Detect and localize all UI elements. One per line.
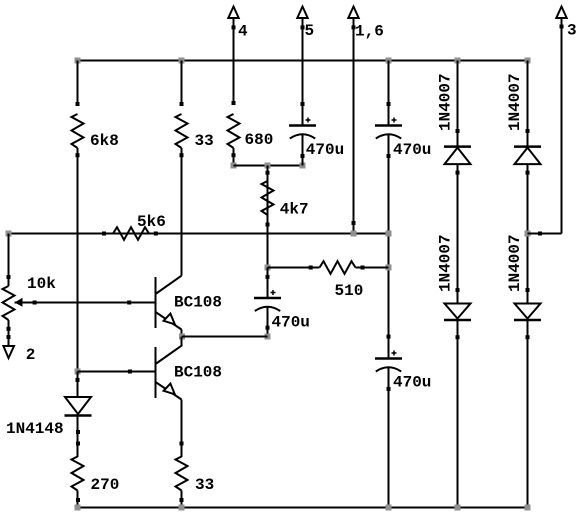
svg-text:470u: 470u [272,314,310,332]
wire 5k6 rail [9,233,390,235]
wire 6k8 bottom to base node [77,148,79,372]
junction top rail / C3 [386,58,392,64]
svg-text:4k7: 4k7 [280,201,309,219]
wire pin3 to D3/D4 node [528,233,562,235]
junction top rail / D1 [455,58,461,64]
wire C3 to C4 [388,135,390,359]
junction 680 bottom [231,163,237,169]
wire D4 to bottom rail [527,320,529,508]
wire top supply rail [77,60,529,62]
capacitor C1 470u [289,118,316,139]
svg-text:33: 33 [195,132,214,150]
wire 680 bottom [233,148,235,166]
svg-text:BC108: BC108 [174,294,222,312]
wire node to Q2 collector [181,337,183,347]
wire rail to 510 node [267,234,269,268]
wire C2 bottom [267,307,269,337]
wire to D1 [457,61,459,147]
wire Q1 emitter to C2 [182,336,268,338]
wire 33 to bottom rail [181,491,183,508]
wire to D3 [527,61,529,147]
transistor Q2 BC108 [156,346,182,400]
wire 1N4148 to 270 [77,416,79,458]
capacitor C2 470u [254,290,281,311]
svg-text:5k6: 5k6 [137,213,166,231]
wire to 1N4148 [77,372,79,398]
terminal arrow pin 3 [556,7,566,19]
wire Q2 base [78,371,156,373]
svg-text:33: 33 [195,476,214,494]
junction bottom 33 [179,505,185,511]
diode D1 1N4007 [444,147,471,165]
junction pin1,6 / rail [351,231,357,237]
wire 270 to bottom rail [77,491,79,508]
terminal arrow pin 1,6 [348,7,358,19]
junction 4k7 top [265,163,271,169]
svg-text:270: 270 [91,476,120,494]
wire Q1 emitter to node [181,330,183,337]
wire pin1,6 to rail [353,19,355,234]
capacitor C4 470u [375,351,402,372]
wire pin3 down [561,19,563,234]
wire 33 to Q1 collector [181,148,183,276]
diode 1N4148 [65,397,92,416]
wire bottom rail [78,507,528,509]
terminal arrow pin 4 [228,7,238,19]
junction top rail / 33 [179,58,185,64]
junction top rail end / D3 [525,58,531,64]
wire D1 to D2 [457,164,459,304]
node 510 left [265,265,271,271]
diode D4 1N4007 [514,304,541,321]
wire 510 right [356,267,389,269]
svg-text:10k: 10k [27,275,56,293]
terminal arrow pin 2 (down) [3,346,14,358]
wire 6k8 top [77,61,79,105]
junction top-left corner [75,58,81,64]
potentiometer 10k [3,286,15,320]
svg-text:3: 3 [567,22,577,40]
svg-text:470u: 470u [393,374,431,392]
svg-text:470u: 470u [306,141,344,159]
junction bottom D2 [455,505,461,511]
wire pot to pin 2 [8,320,10,346]
svg-text:1,6: 1,6 [355,23,384,41]
junction bottom D4 [525,505,531,511]
junction bottom-left [75,505,81,511]
svg-text:1N4007: 1N4007 [506,234,524,292]
junction C2 bottom [265,334,271,340]
wire 680 to cap C1 bottom [234,165,303,167]
capacitor C3 470u [375,118,402,139]
wire D3 to D4 [527,164,529,304]
resistor 33 lower [176,457,188,491]
wire Q2 emitter to 33 [181,400,183,458]
resistor 680 [228,114,240,148]
resistor 4k7 [262,181,274,215]
svg-text:4: 4 [238,23,248,41]
diode D3 1N4007 [514,147,541,165]
wire 510 left [268,267,320,269]
node base2 junction [75,369,81,375]
wire pin4 to 680 [233,19,235,105]
svg-text:1N4148: 1N4148 [6,420,64,438]
junction rail / pot [6,231,12,237]
svg-text:6k8: 6k8 [90,132,119,150]
resistor 510 [320,261,356,274]
svg-text:1N4007: 1N4007 [437,234,455,292]
svg-text:470u: 470u [393,141,431,159]
wire C1 bottom [302,135,304,166]
potentiometer wiper arrow [15,298,23,307]
transistor Q1 BC108 [156,276,182,330]
diode D2 1N4007 [444,304,471,321]
svg-text:680: 680 [245,131,274,149]
wire to cap C2 [267,268,269,299]
wire pin5 to C1 [302,19,304,126]
junction bottom C4 [386,505,392,511]
svg-text:510: 510 [335,282,364,300]
svg-text:1N4007: 1N4007 [506,73,524,131]
wire C4 to bottom rail [388,368,390,508]
svg-text:BC108: BC108 [174,364,222,382]
svg-text:5: 5 [305,22,315,40]
resistor 270 [72,457,84,491]
junction 510 right [386,264,392,270]
resistor 6k8 [72,114,84,148]
junction C1 bottom [300,163,306,169]
wire 4k7 [267,166,269,234]
svg-text:2: 2 [26,346,36,364]
wire 33 top [181,61,183,105]
wire to pot [8,234,10,287]
resistor 33 upper [176,114,188,148]
wire D2 to bottom rail [457,320,459,508]
junction pin3 wire [525,231,531,237]
node Q1 emitter junction [179,334,185,340]
resistor 5k6 [113,227,149,240]
terminal arrow pin 5 [297,7,307,19]
wire to C3 [388,61,390,126]
svg-text:1N4007: 1N4007 [437,73,455,131]
junction rail end [386,231,392,237]
wire pot wiper to Q1 base [15,302,156,304]
